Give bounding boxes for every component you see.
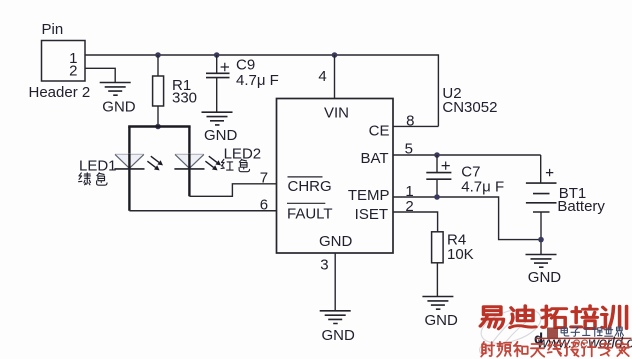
watermark row2 char tian (531, 344, 544, 357)
svg-text:C9: C9 (236, 57, 255, 74)
node D LED branch junction (155, 124, 161, 130)
wire header pin 2 stub (85, 68, 115, 82)
svg-text:GND: GND (322, 327, 356, 344)
svg-text:BAT: BAT (360, 150, 388, 167)
svg-text:LED1: LED1 (79, 158, 117, 175)
watermark logo red underline (536, 337, 632, 339)
label red CJK (221, 159, 233, 170)
watermark logo text eeworld CJK (561, 327, 569, 336)
svg-text:4.7μ F: 4.7μ F (236, 72, 279, 89)
wire pin 4 VIN vertical (334, 55, 336, 99)
svg-text:CHRG: CHRG (288, 178, 332, 195)
svg-text:330: 330 (172, 90, 197, 107)
LED LED1 green (114, 154, 163, 170)
svg-text:3: 3 (320, 256, 328, 273)
capacitor C7 (426, 155, 504, 197)
op-amp U2 CN3052 IC body (277, 99, 394, 254)
watermark row2 char zhuan (599, 342, 612, 356)
svg-text:4: 4 (318, 68, 326, 85)
label green CJK (79, 173, 91, 185)
wire pin 7 path LED2 to CHRG (189, 184, 276, 197)
watermark sketch (faint dish) (477, 302, 545, 354)
wire top rail from header pin 1 to CE corner (85, 55, 438, 126)
svg-text:4.7μ F: 4.7μ F (461, 179, 504, 196)
svg-text:FAULT: FAULT (287, 206, 333, 223)
svg-text:7: 7 (260, 170, 268, 187)
node F TEMP / C7 bottom (434, 194, 440, 200)
svg-text:GND: GND (425, 312, 459, 329)
wire pin 5 BAT to battery (393, 154, 541, 156)
resistor R1 (153, 76, 197, 107)
wire LED1 vertical (thick) (128, 127, 130, 211)
node A top rail / R1 (155, 52, 161, 58)
ground GND R4 (422, 297, 458, 329)
watermark row1 char tuo (542, 306, 566, 328)
svg-text:Pin: Pin (42, 21, 64, 38)
svg-text:CN3052: CN3052 (442, 99, 497, 116)
svg-text:6: 6 (260, 196, 268, 213)
svg-text:GND: GND (319, 233, 353, 250)
wire pin 2 ISET to R4 (393, 212, 438, 232)
svg-text:VIN: VIN (324, 105, 349, 122)
watermark row2 char pin (497, 342, 511, 357)
resistor R4 (432, 232, 474, 263)
watermark row2 char ji (582, 342, 596, 356)
capacitor C9 (206, 55, 279, 112)
svg-text:2: 2 (69, 63, 77, 80)
svg-text:ISET: ISET (355, 206, 388, 223)
wire R1 top lead (157, 55, 159, 76)
ground GND battery (526, 255, 562, 286)
svg-text:Battery: Battery (557, 198, 605, 215)
battery BT1 (526, 155, 606, 255)
wire LED branch horizontal (thick) (128, 125, 190, 127)
watermark row1 char pei (571, 306, 597, 329)
wire pin 1 TEMP to battery bottom (393, 197, 541, 240)
svg-text:CE: CE (369, 123, 390, 140)
node C top rail / VIN (332, 52, 338, 58)
watermark row1 char di (510, 306, 536, 328)
wire pin 8 CE (393, 125, 438, 127)
ground GND header (100, 83, 136, 116)
watermark row1 char xun (602, 306, 627, 328)
watermark row2 char jia (616, 342, 628, 356)
watermark logo red square (547, 328, 558, 339)
ground GND C9 (202, 112, 238, 144)
ground GND pin3 (320, 311, 355, 344)
svg-text:10K: 10K (447, 246, 474, 263)
svg-text:GND: GND (528, 269, 562, 286)
wire LED2 vertical (thick) (188, 127, 190, 197)
svg-text:Header 2: Header 2 (29, 84, 91, 101)
svg-text:8: 8 (406, 112, 414, 129)
svg-text:5: 5 (405, 140, 413, 157)
watermark row2 char shej (565, 343, 579, 357)
svg-text:2: 2 (405, 198, 413, 215)
wire pin 6 path LED1 to FAULT (129, 210, 276, 212)
watermark row2 char xian (548, 342, 562, 356)
svg-text:GND: GND (204, 127, 238, 144)
node B top rail / C9 (214, 52, 220, 58)
wire pin 3 GND vertical (334, 253, 336, 311)
node E BAT / C7 (434, 152, 440, 158)
svg-text:TEMP: TEMP (348, 187, 390, 204)
wire R1 bottom lead (157, 106, 159, 127)
node G battery bottom (538, 237, 544, 243)
watermark row2 char she (481, 342, 494, 357)
svg-text:GND: GND (102, 99, 136, 116)
LED LED2 red (174, 154, 221, 170)
watermark row1 char yi (480, 307, 503, 329)
connector J1 Header 2 (29, 21, 91, 101)
wire R4 bottom lead (436, 263, 438, 297)
watermark row2 char he (514, 342, 528, 357)
